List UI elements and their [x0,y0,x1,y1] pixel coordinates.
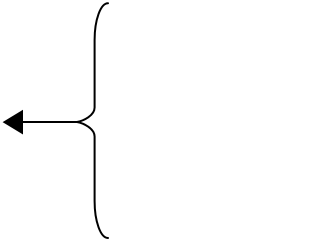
wire bottom branch (curves from bottom-right tip up to middle fork) [77,122,108,238]
arrowhead pointing left [3,110,23,135]
merge-arrow connector glyph [0,0,111,241]
wire horizontal tail (fork to arrowhead) [22,121,78,123]
wire top branch (curves from top-right tip down to middle fork) [77,3,108,122]
